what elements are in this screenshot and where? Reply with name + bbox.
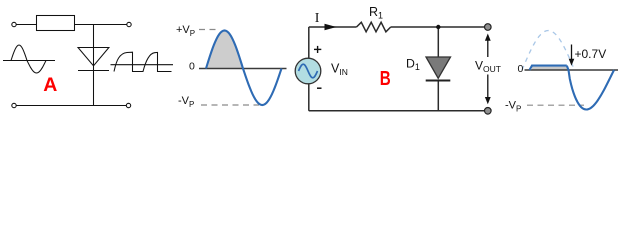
svg-text:0: 0 [518, 63, 524, 75]
svg-text:A: A [43, 74, 57, 96]
svg-text:B: B [380, 68, 391, 90]
svg-text:0: 0 [189, 61, 195, 73]
svg-text:+0.7V: +0.7V [575, 47, 607, 61]
svg-text:I: I [315, 11, 320, 26]
